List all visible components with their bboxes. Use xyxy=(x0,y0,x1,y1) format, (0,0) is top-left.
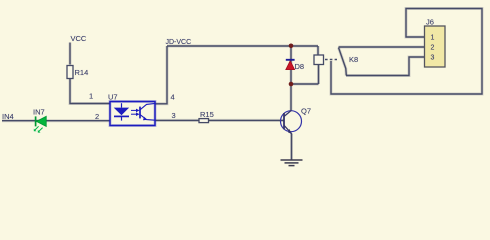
svg-text:IN4: IN4 xyxy=(2,112,14,121)
svg-text:2: 2 xyxy=(95,112,99,121)
svg-text:3: 3 xyxy=(431,55,435,62)
svg-text:D8: D8 xyxy=(295,62,305,71)
svg-text:U7: U7 xyxy=(108,93,118,102)
svg-text:3: 3 xyxy=(172,111,176,120)
svg-text:R14: R14 xyxy=(75,68,89,77)
svg-text:2: 2 xyxy=(431,45,435,52)
svg-text:4: 4 xyxy=(171,93,175,102)
svg-text:1: 1 xyxy=(431,35,435,42)
svg-text:1: 1 xyxy=(89,92,93,101)
svg-text:J6: J6 xyxy=(426,18,434,27)
svg-text:Q7: Q7 xyxy=(301,107,311,116)
svg-text:K8: K8 xyxy=(349,55,358,64)
svg-text:VCC: VCC xyxy=(71,34,87,43)
svg-text:IN7: IN7 xyxy=(33,108,45,117)
svg-text:R15: R15 xyxy=(200,110,214,119)
svg-text:JD-VCC: JD-VCC xyxy=(166,39,192,46)
